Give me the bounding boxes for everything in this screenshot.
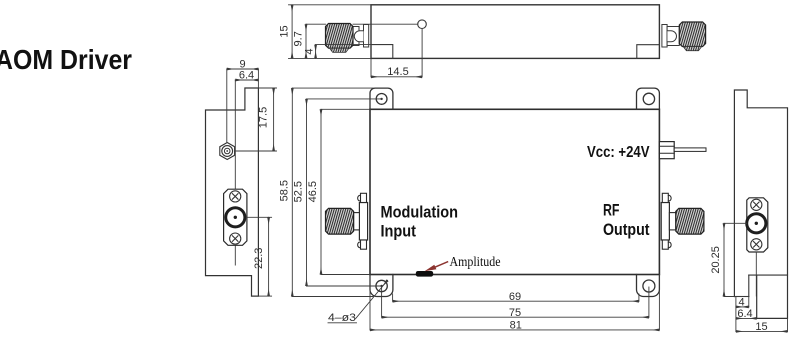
ear bottom-left [370, 275, 393, 297]
dimension 4 (top view step) [316, 44, 371, 46]
svg-text:58.5: 58.5 [279, 180, 291, 201]
dimension 58.5 [292, 87, 373, 89]
svg-text:AOM Driver: AOM Driver [0, 44, 132, 75]
ear top-left [370, 88, 393, 109]
top view left SMA nut chamfer skirt [330, 48, 350, 52]
svg-text:22.3: 22.3 [253, 248, 265, 269]
left view connector ring [226, 208, 245, 227]
left view centerline A [226, 69, 228, 143]
dimension 15 (top view height) [289, 4, 372, 6]
right view plate outline [734, 90, 787, 318]
front right SMA nut [676, 208, 704, 234]
svg-text:9.7: 9.7 [293, 31, 305, 46]
svg-text:Modulation: Modulation [381, 203, 459, 222]
dimension 6.4 (right view) [736, 317, 757, 319]
front left SMA nut [326, 208, 354, 234]
svg-text:81: 81 [510, 319, 522, 331]
left view hex screw [220, 143, 235, 160]
dimension 17.5 [258, 87, 276, 89]
top view left SMA connector body parts [353, 27, 359, 46]
top view right SMA nut chamfer skirt [683, 47, 702, 51]
right view ear strip [748, 275, 750, 296]
svg-text:Output: Output [603, 220, 650, 239]
ear top-right [637, 88, 660, 109]
top view lid screw hole [418, 20, 427, 29]
left view flange top screw [230, 191, 241, 202]
front left SMA flange [359, 203, 367, 241]
right view centerline [755, 252, 757, 296]
svg-text:4–ø3: 4–ø3 [328, 312, 356, 324]
Vcc wire [674, 148, 706, 152]
svg-text:17.5: 17.5 [257, 107, 269, 128]
dimension 52.5 [307, 98, 382, 100]
Vcc feedthrough block [659, 142, 674, 159]
svg-text:Amplitude: Amplitude [450, 255, 501, 270]
svg-text:75: 75 [509, 307, 521, 319]
top view right SMA connector body parts [662, 25, 667, 48]
svg-text:52.5: 52.5 [293, 181, 305, 202]
dimension 69 [392, 294, 394, 301]
top view left ear step [371, 45, 393, 59]
svg-text:15: 15 [755, 321, 767, 333]
left view plate outline [206, 88, 259, 296]
top view right ear step [637, 45, 660, 59]
svg-text:6.4: 6.4 [239, 70, 254, 82]
front view box [370, 109, 659, 274]
right view SMA flange plate [747, 198, 768, 252]
front right SMA shaft [669, 213, 675, 230]
left view centerline B [234, 80, 236, 265]
ear bottom-right [637, 275, 660, 297]
dimension 6.4 (left view) [235, 79, 258, 81]
svg-text:15: 15 [279, 25, 291, 37]
svg-text:46.5: 46.5 [307, 181, 319, 202]
dimension 81 [369, 275, 371, 330]
Amplitude potentiometer [416, 271, 433, 277]
top view left SMA nut [326, 24, 354, 49]
svg-text:20.25: 20.25 [710, 246, 722, 274]
dimension 14.5 [370, 58, 372, 76]
top view body outline [371, 5, 659, 59]
svg-text:69: 69 [509, 291, 521, 303]
front left SMA shaft [354, 213, 360, 230]
left view flange bottom screw [230, 233, 241, 244]
dimension 4 (right view) [735, 297, 737, 307]
svg-text:RF: RF [603, 201, 620, 220]
dimension 9.7 [306, 23, 326, 25]
dimension 20.25 [724, 222, 747, 224]
dimension 15 (right view) [735, 307, 737, 332]
right view flange bottom screw [751, 239, 762, 250]
top view right SMA nut [679, 22, 705, 47]
right view flange top screw [751, 199, 762, 210]
dimension 46.5 [321, 108, 370, 110]
left view SMA flange plate [224, 189, 247, 245]
right view box bottom line [749, 274, 788, 276]
Amplitude arrow [434, 262, 448, 268]
svg-text:6.4: 6.4 [737, 308, 752, 320]
svg-text:Input: Input [381, 222, 417, 241]
svg-text:4: 4 [304, 49, 316, 55]
front right SMA flange [661, 203, 669, 241]
svg-text:Vcc: +24V: Vcc: +24V [587, 144, 650, 161]
dimension 75 [381, 287, 383, 317]
svg-text:14.5: 14.5 [387, 66, 408, 78]
svg-text:4: 4 [738, 297, 744, 309]
right view connector ring [747, 214, 766, 233]
dimension 22.3 [247, 216, 272, 218]
dimension 9 [257, 69, 259, 88]
